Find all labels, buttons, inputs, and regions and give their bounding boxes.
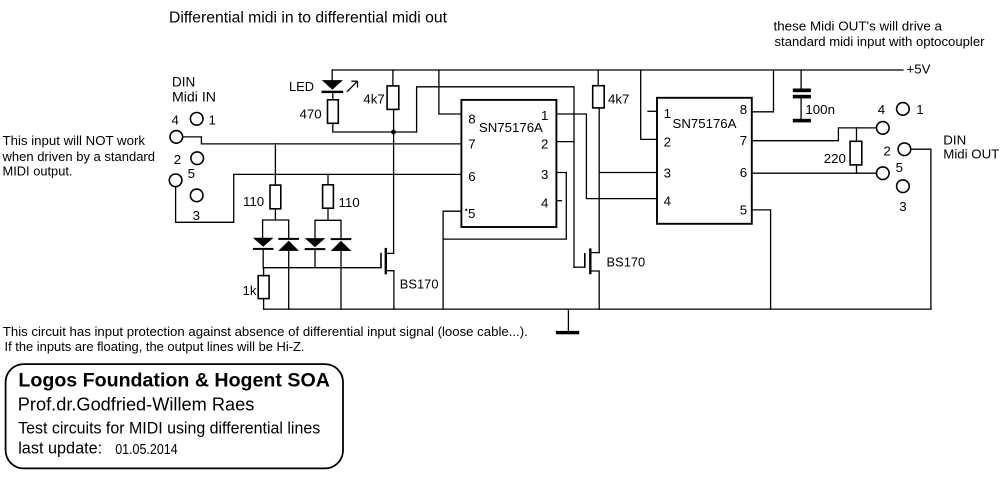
svg-text:6: 6 <box>740 165 747 180</box>
wire Q2 gate lead <box>574 266 585 268</box>
wire D3 cathode down <box>314 250 316 268</box>
capacitor C1 100n <box>793 89 811 123</box>
svg-text:standard midi input with optoc: standard midi input with optocoupler <box>775 34 986 49</box>
svg-text:110: 110 <box>339 195 360 210</box>
svg-text:when driven by a standard: when driven by a standard <box>2 149 155 164</box>
wire 1k top lead <box>263 268 265 276</box>
wire U2 pin5 to ground <box>752 210 771 309</box>
resistor R4 110 <box>323 185 334 208</box>
wire DIN-out pin2 to ground <box>911 149 931 309</box>
wire Q1 drain stub <box>387 252 394 254</box>
wire R4 110 top branch <box>327 174 329 184</box>
svg-text:5: 5 <box>740 202 747 217</box>
wire LED anode riser <box>331 70 333 80</box>
svg-text:these Midi OUT's will drive a: these Midi OUT's will drive a <box>774 18 943 33</box>
svg-text:1: 1 <box>209 112 216 127</box>
svg-text:100n: 100n <box>805 102 835 117</box>
wire U2 pin6 to DIN-out pin5 <box>752 172 877 174</box>
svg-text:1: 1 <box>664 106 671 121</box>
svg-text:Midi OUT: Midi OUT <box>943 147 999 162</box>
transistor Q1 BS170 <box>381 248 386 274</box>
svg-text:DIN: DIN <box>943 133 966 148</box>
wire U2 pin2 riser <box>641 70 657 139</box>
svg-text:470: 470 <box>300 107 322 122</box>
svg-text:5: 5 <box>188 166 195 181</box>
resistor R7 220 <box>850 141 862 165</box>
svg-text:Logos Foundation & Hogent SOA: Logos Foundation & Hogent SOA <box>18 370 330 391</box>
LED LED1 <box>322 80 358 93</box>
resistor R6 1k <box>258 276 269 299</box>
node DIN-out pin5 <box>877 167 890 180</box>
wire U1 pin4 stub <box>556 200 561 202</box>
node junction dot <box>391 130 396 135</box>
wire U1 pin5 to ground <box>443 211 461 309</box>
svg-text:SN75176A: SN75176A <box>673 116 737 131</box>
node DIN-out pin3 <box>897 180 910 193</box>
svg-text:6: 6 <box>468 169 475 184</box>
wire R4 bottom to diode pair split <box>315 208 328 238</box>
wire Q2 drain stub <box>591 252 599 254</box>
wire U1 pin2 lead <box>556 141 574 143</box>
node DIN-in pin2 <box>191 152 204 165</box>
svg-text:5: 5 <box>468 206 475 221</box>
svg-text:Differential midi in to differ: Differential midi in to differential mid… <box>169 10 448 27</box>
wire Q1 source to ground rail <box>387 271 394 309</box>
wire diode pair1 right branch <box>275 220 288 238</box>
svg-text:If the inputs are floating, th: If the inputs are floating, the output l… <box>5 339 305 354</box>
wire R3 110 top branch <box>274 144 276 185</box>
svg-text:2: 2 <box>541 136 548 151</box>
svg-text:Midi IN: Midi IN <box>172 90 216 105</box>
wire DIN-in pin4 to U1 pin7 <box>183 137 462 144</box>
wire 4k7 R5 bottom to Q2 drain <box>598 108 600 253</box>
diode D2 <box>278 238 299 251</box>
svg-text:1: 1 <box>916 102 923 117</box>
wire 220 bottom lead <box>856 165 858 173</box>
svg-text:last update:: last update: <box>18 440 102 458</box>
svg-text:MIDI output.: MIDI output. <box>3 164 73 179</box>
svg-text:01.05.2014: 01.05.2014 <box>115 442 178 458</box>
svg-text:LED: LED <box>289 79 314 94</box>
svg-text:This input will NOT work: This input will NOT work <box>3 133 146 148</box>
node DIN-in pin4 <box>170 131 183 144</box>
wire U1 pin8 lead <box>439 70 462 114</box>
wire 4k7 R2 top riser <box>392 70 394 86</box>
svg-text:1k: 1k <box>243 283 257 298</box>
wire D2 anode down to ground rail <box>288 251 290 309</box>
svg-text:DIN: DIN <box>172 75 195 90</box>
svg-text:110: 110 <box>243 194 264 209</box>
node DIN-in pin5 <box>169 174 182 187</box>
ground <box>556 331 579 334</box>
svg-text:7: 7 <box>468 136 475 151</box>
svg-text:2: 2 <box>664 134 671 149</box>
label credits box <box>6 364 343 468</box>
svg-text:8: 8 <box>740 102 747 117</box>
wire DIN-in pin5 to U1 pin6 <box>176 174 462 222</box>
svg-text:3: 3 <box>899 199 906 214</box>
diode D1 <box>253 238 274 250</box>
svg-text:Prof.dr.Godfried-Willem Raes: Prof.dr.Godfried-Willem Raes <box>18 395 255 415</box>
wire diode pair2 right branch <box>328 220 341 238</box>
wire 4k7 R5 top riser <box>597 70 599 86</box>
svg-text:8: 8 <box>468 112 475 127</box>
svg-text:2: 2 <box>883 143 890 158</box>
op-amp U2 SN75176A box <box>657 98 752 224</box>
svg-text:3: 3 <box>664 166 671 181</box>
wire U2 pin3 lead <box>599 172 657 174</box>
svg-text:7: 7 <box>740 133 747 148</box>
wire U2 pin1 stub <box>648 110 657 112</box>
node DIN-out pin2 <box>898 143 911 156</box>
transistor Q2 BS170 <box>585 248 591 274</box>
wire +5V rail <box>332 69 903 71</box>
wire D4 anode down to ground rail <box>340 251 342 309</box>
connector DIN midi out circles <box>877 103 911 193</box>
svg-text:4: 4 <box>172 112 179 127</box>
wire ground rail <box>264 308 931 310</box>
svg-text:2: 2 <box>174 152 181 167</box>
node DIN-in pin3 <box>190 189 203 202</box>
wire junction to U1 pin2 and Q2 gate <box>417 87 574 267</box>
wire 220 top lead <box>856 128 858 141</box>
wire 100n riser <box>800 70 802 89</box>
svg-text:3: 3 <box>193 208 200 223</box>
wire 100n middle lead <box>800 98 802 118</box>
svg-text:4k7: 4k7 <box>363 92 384 107</box>
diode D4 <box>331 238 352 251</box>
svg-text:4: 4 <box>541 195 548 210</box>
svg-text:5: 5 <box>896 160 903 175</box>
svg-text:4: 4 <box>664 193 671 208</box>
wire R3 bottom to diode pair split <box>263 209 276 238</box>
wire ground stub <box>567 309 569 331</box>
wire U2 pin7 to DIN-out pin4 <box>752 128 877 141</box>
svg-text:1: 1 <box>541 108 548 123</box>
svg-text:220: 220 <box>824 151 846 166</box>
svg-text:3: 3 <box>541 167 548 182</box>
diode D3 <box>305 238 326 250</box>
wire gate rail to Q1 <box>263 267 381 269</box>
wire 1k bottom lead <box>263 299 265 310</box>
svg-text:Test circuits for MIDI using d: Test circuits for MIDI using differentia… <box>18 419 320 438</box>
node DIN-out pin4 <box>877 122 890 135</box>
svg-text:BS170: BS170 <box>400 276 439 291</box>
wire U2 pin8 lead <box>752 70 774 112</box>
resistor R3 110 <box>270 185 281 209</box>
resistor R5 4k7 <box>593 86 605 108</box>
wire U1 pin1 to U2 pin4 <box>556 114 657 199</box>
resistor R1 470 <box>328 100 339 124</box>
svg-text:This circuit has input protect: This circuit has input protection agains… <box>3 324 528 339</box>
node stray dot left of U1 pin5 <box>465 209 467 211</box>
node DIN-out pin1 <box>897 103 910 116</box>
svg-text:SN75176A: SN75176A <box>479 120 543 135</box>
node DIN-in pin1 <box>190 113 203 126</box>
wire LED to R 470 <box>332 94 334 100</box>
svg-text:4k7: 4k7 <box>608 92 629 107</box>
wire U1 pin3 to ground link <box>443 173 566 240</box>
resistor R2 4k7 <box>387 86 399 110</box>
svg-text:+5V: +5V <box>907 62 931 77</box>
wire 4k7 R2 bottom to Q1 drain <box>393 109 395 253</box>
wire 470 bottom to junction <box>333 123 417 132</box>
wire D1 cathode down <box>262 250 264 268</box>
svg-text:4: 4 <box>878 102 885 117</box>
wire Q2 source to ground rail <box>591 271 599 309</box>
op-amp U1 SN75176A box <box>461 100 556 227</box>
svg-text:BS170: BS170 <box>607 254 646 269</box>
connector DIN midi in circles <box>169 113 203 202</box>
